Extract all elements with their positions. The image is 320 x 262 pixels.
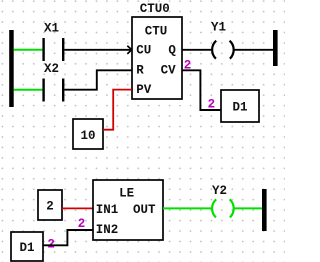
svg-text:X1: X1 bbox=[44, 22, 59, 36]
wire 10 box to PV pin (red) bbox=[103, 90, 132, 130]
svg-text:PV: PV bbox=[136, 83, 152, 97]
pin Q bbox=[168, 44, 176, 58]
wire 2 box to IN1 pin (red) bbox=[62, 207, 93, 209]
label 2 (D1 wire, magenta) bbox=[208, 97, 216, 111]
operand box D1 (bottom) bbox=[11, 232, 43, 261]
wire coil Y1 to right rail bbox=[233, 49, 273, 51]
label 2 (D1 wire bottom, magenta) bbox=[47, 238, 55, 252]
operand box 10 (preset value) bbox=[73, 119, 103, 149]
operand box 2 (compare constant) bbox=[38, 190, 62, 220]
label D1 (bottom) bbox=[19, 241, 34, 255]
svg-text:D1: D1 bbox=[232, 101, 247, 115]
label D1 bbox=[232, 101, 247, 115]
wire D1 box to IN2 pin bbox=[43, 230, 93, 245]
svg-text:D1: D1 bbox=[19, 241, 34, 255]
svg-text:2: 2 bbox=[46, 200, 54, 214]
coil Y2 (energized) bbox=[212, 199, 234, 217]
svg-text:IN2: IN2 bbox=[96, 223, 119, 237]
label 2 (constant) bbox=[46, 200, 54, 214]
pin OUT bbox=[133, 203, 156, 217]
label Y1 bbox=[211, 21, 226, 35]
svg-text:CTU0: CTU0 bbox=[140, 2, 170, 16]
contact X2 bbox=[42, 79, 64, 102]
svg-text:OUT: OUT bbox=[133, 203, 156, 217]
svg-text:CU: CU bbox=[136, 44, 151, 58]
svg-text:Y2: Y2 bbox=[212, 184, 227, 198]
label 2 (IN2 wire, magenta) bbox=[78, 217, 86, 231]
label X1 bbox=[44, 22, 59, 36]
label CTU (block type) bbox=[145, 25, 168, 39]
pin CV bbox=[161, 63, 177, 77]
wire OUT to coil Y2 (energized) bbox=[163, 207, 212, 209]
label LE (block type) bbox=[119, 187, 134, 201]
svg-text:CTU: CTU bbox=[145, 25, 168, 39]
label X2 bbox=[44, 62, 59, 76]
svg-text:CV: CV bbox=[161, 63, 177, 77]
pin CU bbox=[136, 44, 151, 58]
svg-text:IN1: IN1 bbox=[96, 203, 119, 217]
wire X1 to CTU0 CU pin with arrowhead bbox=[64, 46, 131, 54]
pin R bbox=[136, 63, 144, 77]
right power rail (rung 2) bbox=[262, 189, 267, 231]
right power rail (rung 1) bbox=[273, 30, 278, 66]
wire CV output to D1 box bbox=[182, 70, 221, 110]
wire X2 to CTU0 R pin bbox=[64, 70, 131, 89]
wire coil Y2 to right rail (energized) bbox=[233, 207, 262, 209]
pin PV bbox=[136, 83, 152, 97]
wire Q output to coil Y1 bbox=[182, 49, 212, 51]
pin IN2 bbox=[96, 223, 119, 237]
svg-text:X2: X2 bbox=[44, 62, 59, 76]
svg-text:R: R bbox=[136, 63, 144, 77]
label 2 (CV data width, magenta) bbox=[184, 58, 192, 72]
label Y2 bbox=[212, 184, 227, 198]
function block CTU0 bbox=[132, 17, 182, 99]
label CTU0 (block title) bbox=[140, 2, 170, 16]
wire rail to X1 contact (energized) bbox=[14, 49, 43, 51]
svg-text:2: 2 bbox=[78, 217, 86, 231]
wire rail to X2 contact (energized) bbox=[14, 89, 43, 91]
operand box D1 (counter register) bbox=[221, 90, 259, 122]
label 10 bbox=[80, 129, 95, 143]
svg-text:LE: LE bbox=[119, 187, 134, 201]
coil Y1 bbox=[212, 41, 234, 59]
contact X1 bbox=[42, 38, 64, 61]
svg-text:Q: Q bbox=[168, 44, 176, 58]
svg-text:10: 10 bbox=[80, 129, 95, 143]
pin IN1 bbox=[96, 203, 119, 217]
svg-text:Y1: Y1 bbox=[211, 21, 226, 35]
left power rail bbox=[9, 30, 14, 107]
function block LE bbox=[93, 180, 163, 240]
svg-text:2: 2 bbox=[208, 97, 216, 111]
